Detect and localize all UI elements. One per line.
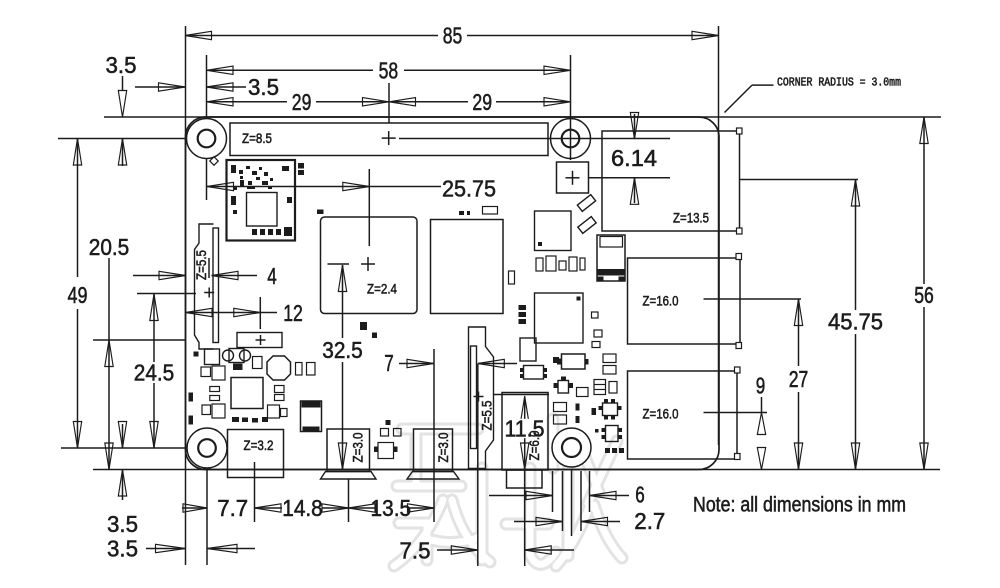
- dim 14.8: [282, 495, 348, 521]
- svg-text:25.75: 25.75: [442, 176, 496, 202]
- wifi module U1: [227, 160, 296, 241]
- wire SoC center vertical extension: [368, 169, 370, 246]
- svg-text:CORNER RADIUS = 3.0mm: CORNER RADIUS = 3.0mm: [777, 77, 901, 90]
- svg-text:13.5: 13.5: [371, 495, 412, 521]
- SoC U2 Z=2.4: [321, 217, 418, 314]
- wire audio center extension: [524, 398, 526, 566]
- RAM U3: [431, 220, 504, 314]
- small parts group A: [210, 157, 515, 284]
- dim 49: [68, 139, 88, 449]
- dim 7: [384, 350, 517, 376]
- dim 4: [133, 263, 277, 289]
- svg-text:24.5: 24.5: [134, 360, 175, 386]
- wire CSI center extension: [477, 364, 479, 566]
- wire hole BR center extension: [571, 469, 573, 536]
- svg-text:12: 12: [283, 300, 303, 326]
- USB2 mount tabs: [735, 367, 741, 460]
- svg-text:Z=5.5: Z=5.5: [479, 400, 495, 430]
- dim 6.14: [611, 113, 657, 205]
- board outline: [186, 117, 720, 470]
- wire USB2 center line: [704, 412, 768, 414]
- svg-text:7: 7: [384, 350, 394, 376]
- svg-text:27: 27: [789, 366, 809, 392]
- svg-text:3.5: 3.5: [107, 536, 138, 562]
- dim 56: [914, 117, 934, 470]
- dim 2.7: [514, 508, 665, 534]
- wire left extension line x=185.5: [185, 26, 187, 565]
- svg-text:Z=16.0: Z=16.0: [643, 406, 679, 422]
- wire PoE pad line y=177.8: [589, 177, 671, 179]
- HDMI0 connector: [321, 429, 377, 479]
- dim 3.5 bottom-left horizontal: [107, 536, 255, 562]
- DSI connector J5: [193, 224, 220, 365]
- svg-text:29: 29: [292, 89, 312, 115]
- wire PoE line y=340 left: [93, 339, 186, 341]
- note text: [693, 494, 906, 517]
- USB2 stack J4: [628, 371, 738, 459]
- GPIO header J8: [230, 123, 548, 156]
- wire DSI top tick: [208, 258, 210, 278]
- svg-text:6.14: 6.14: [611, 145, 657, 171]
- svg-text:49: 49: [68, 282, 88, 308]
- dim 3.5 top horizontal: [135, 74, 279, 100]
- EMI can: [597, 235, 625, 281]
- ethernet mount tabs: [737, 128, 743, 234]
- svg-text:Note: all dimensions in mm: Note: all dimensions in mm: [693, 494, 906, 517]
- small parts group D mid-right: [519, 256, 603, 348]
- dim 58: [207, 57, 571, 83]
- mounting hole TR: [551, 119, 591, 159]
- svg-text:2.7: 2.7: [634, 508, 665, 534]
- wire hole TR horizontal line: [399, 138, 670, 140]
- svg-text:3.5: 3.5: [107, 511, 138, 537]
- USB3 stack J3: [628, 258, 741, 344]
- wire DSI center line y=293.5: [137, 293, 196, 295]
- svg-text:Z=5.5: Z=5.5: [193, 250, 209, 280]
- CSI camera connector J7: [469, 327, 495, 469]
- dim 85: [185, 23, 719, 49]
- dim 25.75: [207, 176, 496, 202]
- svg-text:6: 6: [635, 482, 645, 508]
- svg-text:85: 85: [443, 23, 463, 49]
- polyfuse F1: [301, 401, 322, 432]
- dim 3.5 bottom-left vertical: [107, 422, 138, 538]
- mounting hole BR: [552, 428, 591, 467]
- wire USB-C center extension: [254, 462, 256, 522]
- corner radius callout: [725, 77, 902, 113]
- inductor L1: [267, 356, 291, 380]
- dim 3.5 top-left vertical: [106, 52, 137, 166]
- svg-text:3.5: 3.5: [248, 74, 279, 100]
- wifi module interior pads: [231, 165, 292, 236]
- dim 11.5: [503, 396, 547, 470]
- wire hole BL horizontal extension: [61, 447, 198, 449]
- mounting hole BL: [187, 428, 227, 468]
- wire hole TR vertical extension: [570, 55, 572, 160]
- svg-text:7.7: 7.7: [217, 495, 248, 521]
- svg-text:9: 9: [756, 373, 766, 399]
- svg-text:Z=3.0: Z=3.0: [435, 432, 451, 462]
- dim 12: [186, 300, 303, 326]
- USB-C power J1: [228, 430, 284, 478]
- svg-text:7.5: 7.5: [400, 538, 431, 564]
- dim 9: [756, 373, 766, 470]
- HDMI1 connector: [407, 429, 459, 479]
- wire USB3 center line: [704, 298, 802, 300]
- wire HDMI0 center extension: [348, 480, 350, 523]
- svg-text:Z=16.0: Z=16.0: [643, 293, 679, 309]
- dim 27: [789, 299, 809, 470]
- wire board top edge line: [104, 116, 941, 118]
- wire hole BL vertical extension: [206, 448, 208, 565]
- dim 13.5: [349, 495, 435, 521]
- USB3 mount tabs: [736, 254, 742, 349]
- svg-text:14.8: 14.8: [282, 495, 323, 521]
- svg-text:56: 56: [914, 282, 934, 308]
- audio jack J8A: [502, 393, 548, 489]
- wire board bottom edge line: [93, 469, 940, 471]
- svg-text:58: 58: [379, 57, 399, 83]
- dim 24.5: [134, 294, 175, 448]
- watermark: [394, 419, 622, 566]
- wire hole TL horizontal extension: [58, 138, 198, 140]
- svg-text:20.5: 20.5: [89, 234, 130, 260]
- mounting hole TL: [187, 119, 227, 159]
- svg-text:Z=8.5: Z=8.5: [242, 130, 272, 146]
- wire hole TL vertical extension: [206, 55, 208, 200]
- svg-text:Z=6.0: Z=6.0: [526, 430, 542, 460]
- diag component D1: [577, 195, 595, 212]
- dim 45.75: [828, 180, 883, 470]
- wire hole BR inner tangents: [563, 471, 582, 531]
- ethernet jack J2: [602, 131, 740, 231]
- svg-text:Z=2.4: Z=2.4: [367, 281, 397, 297]
- wire audio center line y=394.5: [494, 394, 550, 396]
- svg-text:Z=3.2: Z=3.2: [244, 437, 274, 453]
- wire right extension line x=718.5: [718, 26, 720, 445]
- dim 7.5: [400, 538, 575, 564]
- svg-text:3.5: 3.5: [106, 52, 137, 78]
- svg-text:29: 29: [472, 89, 492, 115]
- wire PoE header extension: [259, 297, 261, 329]
- PoE header J6: [237, 333, 282, 348]
- wire hole BR outer tangents: [553, 471, 590, 512]
- small parts group C between HDMI: [374, 420, 401, 459]
- svg-text:45.75: 45.75: [828, 309, 883, 335]
- dim 29 right: [389, 89, 571, 115]
- svg-text:32.5: 32.5: [322, 337, 363, 363]
- small parts group B power area: [189, 322, 378, 425]
- PMIC U6: [231, 378, 263, 409]
- USB controller U5: [535, 293, 584, 343]
- dim 20.5: [89, 234, 130, 470]
- crystal X1: [223, 349, 251, 371]
- wire ethernet center line: [740, 179, 859, 181]
- wire center extension x=389: [388, 83, 390, 123]
- dim 6: [489, 482, 645, 508]
- svg-text:4: 4: [267, 263, 277, 289]
- wire HDMI1 center extension: [433, 349, 435, 522]
- dim 29 left: [207, 89, 390, 115]
- dim 32.5: [322, 264, 363, 470]
- PoE pad: [557, 162, 589, 193]
- svg-text:Z=3.0: Z=3.0: [350, 432, 366, 462]
- mid chip U4: [535, 211, 572, 251]
- dim 7.7: [182, 495, 282, 521]
- svg-text:Z=13.5: Z=13.5: [673, 210, 709, 226]
- small parts group E lower-right: [520, 338, 624, 453]
- diag component D2: [578, 217, 596, 234]
